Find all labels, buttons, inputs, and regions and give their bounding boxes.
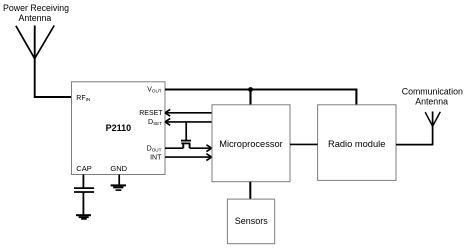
svg-text:DSET: DSET <box>148 119 162 126</box>
block Radio module <box>318 105 396 181</box>
svg-text:Radio module: Radio module <box>328 139 385 149</box>
capacitor C1 on CAP pin <box>74 175 94 215</box>
svg-text:Communication: Communication <box>402 87 463 97</box>
svg-text:RFIN: RFIN <box>76 95 90 102</box>
wire microprocessor to sensors <box>249 182 251 199</box>
wire DSET with arrow into P2110 <box>165 119 212 126</box>
svg-text:Microprocessor: Microprocessor <box>219 139 283 149</box>
antenna ANT2 communication <box>425 112 440 126</box>
junction dot VOUT node <box>248 87 253 92</box>
svg-text:Antenna: Antenna <box>415 96 448 106</box>
IC U1 P2110 <box>72 82 166 175</box>
svg-text:P2110: P2110 <box>106 123 132 133</box>
svg-text:RESET: RESET <box>139 110 163 117</box>
wire RESET with arrow into P2110 <box>165 109 212 116</box>
svg-text:VOUT: VOUT <box>147 87 162 94</box>
svg-text:INT: INT <box>150 154 162 161</box>
svg-text:DOUT: DOUT <box>147 146 162 153</box>
svg-text:GND: GND <box>110 164 127 173</box>
label Power Receiving Antenna <box>3 3 69 23</box>
antenna ANT1 power receiving <box>16 26 54 59</box>
wire VOUT branch to microprocessor <box>249 90 251 105</box>
wire GND pin to ground <box>118 175 120 185</box>
wire INT with arrow into microprocessor <box>165 154 212 161</box>
wire ANT2 to radio module <box>396 112 433 145</box>
ground symbol below C1 <box>76 215 91 219</box>
wire DOUT with arrow into microprocessor <box>165 145 212 152</box>
ground symbol below GND pin <box>111 185 126 190</box>
label Communication Antenna <box>402 87 463 107</box>
wire microprocessor to radio module <box>290 143 318 145</box>
block Microprocessor <box>212 105 290 182</box>
svg-text:Sensors: Sensors <box>235 216 269 226</box>
block Sensors <box>227 199 274 244</box>
wire VOUT bus to radio module <box>165 90 356 105</box>
wire ANT1 feed to RFIN pin <box>35 57 72 97</box>
transistor Q1 on DOUT line gate from DSET <box>181 122 191 148</box>
svg-text:Antenna: Antenna <box>19 13 52 23</box>
svg-text:CAP: CAP <box>76 164 91 173</box>
svg-text:Power Receiving: Power Receiving <box>3 3 69 13</box>
